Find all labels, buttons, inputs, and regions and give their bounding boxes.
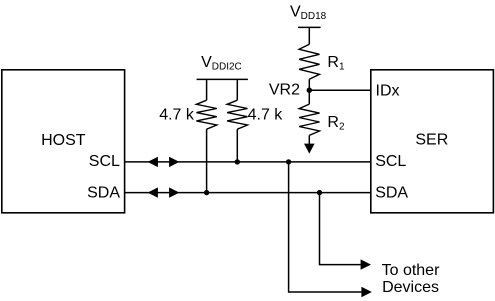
svg-text:SDA: SDA: [375, 184, 408, 201]
junction dot SCL branch: [286, 159, 291, 164]
wire SDA HOST to SER: [125, 192, 371, 194]
svg-text:SDA: SDA: [87, 184, 120, 201]
wire node VR2 to IDx pin: [309, 89, 371, 91]
junction dot left pullup on SDA: [204, 190, 209, 195]
svg-text:4.7 k: 4.7 k: [248, 107, 284, 124]
pullup resistor right 4.7k: stem from bar: [236, 79, 238, 100]
svg-text:SCL: SCL: [89, 153, 120, 170]
wire left pullup to SDA: [206, 129, 208, 192]
svg-text:IDx: IDx: [376, 83, 400, 100]
svg-text:To other: To other: [382, 262, 440, 279]
svg-text:SER: SER: [415, 132, 448, 149]
pullup resistor left 4.7k zigzag: [196, 100, 216, 129]
junction dot SDA branch: [317, 190, 322, 195]
wire VDD18 bar to R1: [308, 27, 310, 44]
bidirectional arrow SCL right triangle: [169, 157, 179, 167]
wire R1 to node VR2: [308, 79, 310, 90]
supply VDDI2C bar: [197, 78, 248, 80]
wire VR2 to R2: [308, 90, 310, 104]
svg-text:Devices: Devices: [382, 279, 439, 296]
svg-text:SCL: SCL: [375, 153, 406, 170]
arrow to other devices lower: [361, 287, 371, 297]
pullup resistor left 4.7k: stem from bar: [206, 79, 208, 100]
supply VDD18 bar: [298, 26, 321, 28]
wire R2 to down arrow: [308, 135, 310, 144]
wire SCL branch down to other devices: [289, 162, 362, 292]
bidirectional arrow SCL left triangle: [148, 157, 158, 167]
svg-text:HOST: HOST: [41, 132, 86, 149]
HOST box: [2, 70, 125, 213]
junction dot right pullup on SCL: [235, 159, 240, 164]
svg-text:4.7 k: 4.7 k: [159, 107, 195, 124]
pullup resistor right 4.7k zigzag: [227, 100, 247, 129]
SER box: [371, 70, 494, 213]
bidirectional arrow SDA left triangle: [148, 187, 158, 197]
arrow to other devices upper: [361, 259, 371, 269]
svg-text:VR2: VR2: [269, 82, 300, 99]
arrow down below R2: [304, 144, 315, 154]
resistor R2 zigzag: [299, 104, 319, 135]
resistor R1 zigzag: [299, 44, 319, 79]
wire SCL HOST to SER: [125, 161, 371, 163]
node VR2 junction dot: [307, 88, 312, 93]
bidirectional arrow SDA right triangle: [169, 187, 179, 197]
wire SDA branch down to other devices: [320, 193, 361, 265]
wire right pullup to SCL: [236, 129, 238, 162]
